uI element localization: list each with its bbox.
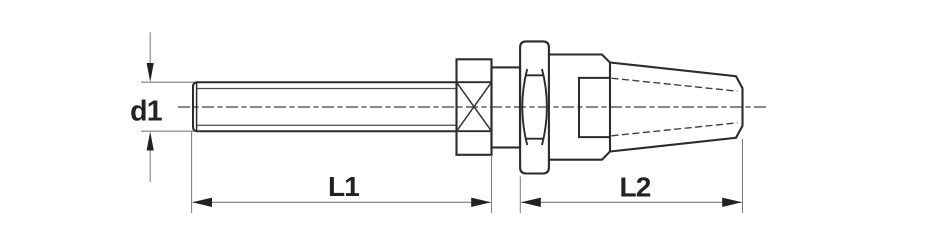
d1 extension line top bbox=[141, 81, 194, 83]
block horizontal line bottom bbox=[457, 130, 492, 132]
square wrench-flat block bbox=[457, 59, 492, 155]
svg-text:d1: d1 bbox=[130, 95, 163, 127]
d1 dimension line lower bbox=[149, 150, 151, 182]
L2 arrow right bbox=[722, 198, 742, 207]
flat-marking diagonal 2 bbox=[457, 82, 492, 131]
cylindrical body after hex bbox=[549, 55, 610, 160]
collar between block and hex bbox=[492, 67, 521, 147]
hex nut outline bbox=[520, 41, 549, 173]
d1 arrow up bbox=[147, 131, 154, 150]
rod left chamfer line bbox=[196, 82, 198, 131]
thread minor line top bbox=[197, 88, 457, 90]
hidden bore line top bbox=[612, 78, 738, 91]
swage cone outline bbox=[610, 63, 743, 152]
thread minor line bottom bbox=[197, 124, 457, 126]
threaded rod body outline bbox=[193, 82, 457, 131]
inner bore rectangle bbox=[579, 78, 610, 137]
d1 dimension line upper bbox=[149, 32, 151, 64]
hex edge curve left bbox=[522, 69, 527, 145]
d1 extension line bottom bbox=[141, 130, 194, 132]
L1 extension line left bbox=[191, 131, 193, 213]
L2 arrow left bbox=[521, 198, 541, 207]
L1 arrow right bbox=[471, 198, 491, 207]
block horizontal line top bbox=[457, 81, 492, 83]
L1 dimension line bbox=[193, 201, 491, 203]
L1 extension line right bbox=[491, 155, 493, 213]
hex face line top bbox=[526, 74, 543, 76]
L1 arrow left bbox=[192, 198, 212, 207]
L2 dimension line bbox=[522, 201, 742, 203]
centerline bbox=[178, 106, 768, 108]
hex edge curve right bbox=[542, 69, 547, 145]
flat-marking diagonal 1 bbox=[457, 82, 492, 131]
d1 arrow down bbox=[147, 63, 154, 82]
hidden bore line bottom bbox=[612, 123, 738, 136]
hex face line bottom bbox=[526, 138, 543, 140]
L2 extension line right bbox=[742, 139, 744, 213]
svg-text:L2: L2 bbox=[619, 171, 650, 202]
L2 extension line left bbox=[519, 177, 521, 214]
svg-text:L1: L1 bbox=[328, 171, 359, 202]
